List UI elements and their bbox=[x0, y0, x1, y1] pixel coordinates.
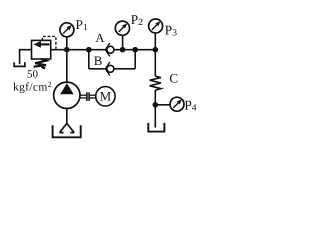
tank main reservoir bbox=[53, 125, 81, 137]
wire pump suction bbox=[66, 109, 68, 124]
wire P2 gauge stem bbox=[122, 35, 124, 49]
svg-text:kgf/cm2: kgf/cm2 bbox=[13, 80, 52, 94]
shaft coupling bbox=[80, 92, 96, 101]
motor M bbox=[96, 87, 115, 106]
relief valve body bbox=[32, 40, 51, 59]
pump P bbox=[54, 82, 80, 108]
gauge P4 bbox=[170, 97, 184, 111]
node junction P3 / C branch bbox=[153, 47, 159, 53]
svg-text:B: B bbox=[94, 53, 103, 68]
tank C drain bbox=[148, 123, 164, 132]
wire main line from relief valve to check valve A bbox=[51, 49, 107, 51]
wire C branch lower vertical bbox=[154, 90, 156, 127]
svg-text:C: C bbox=[169, 70, 178, 85]
gauge P1 bbox=[60, 23, 74, 37]
suction strainer triangle bbox=[60, 123, 75, 132]
svg-text:M: M bbox=[100, 88, 112, 103]
wire branch B up segment bbox=[134, 50, 136, 69]
node junction P2 bbox=[120, 47, 126, 53]
wire branch B down segment bbox=[88, 50, 90, 69]
gauge P3 bbox=[149, 19, 163, 33]
tank relief drain bbox=[14, 62, 25, 66]
gauge P2 bbox=[115, 21, 129, 35]
svg-text:A: A bbox=[95, 31, 104, 45]
node junction branch B split bbox=[86, 47, 92, 53]
wire branch B right horizontal bbox=[114, 68, 135, 70]
wire relief valve to tank bbox=[20, 50, 32, 64]
restrictor C zigzag bbox=[150, 76, 161, 90]
wire main line from check valve A to node P3 bbox=[114, 49, 155, 51]
check valve B bbox=[105, 62, 114, 75]
wire P4 gauge stem bbox=[155, 104, 170, 106]
node junction pump/relief/P1 bbox=[64, 47, 70, 53]
relief valve spring bbox=[34, 59, 47, 69]
wire P1 gauge stem bbox=[66, 37, 68, 50]
node junction P4 bbox=[153, 102, 159, 108]
wire P3 gauge stem bbox=[154, 33, 156, 50]
wire branch B left horizontal bbox=[89, 68, 107, 70]
wire pump outlet vertical bbox=[66, 50, 68, 82]
check valve A bbox=[105, 43, 114, 56]
node junction branch B rejoin bbox=[132, 47, 138, 53]
relief valve pilot dashed line bbox=[42, 36, 56, 48]
svg-text:50: 50 bbox=[27, 69, 39, 81]
wire C branch upper vertical bbox=[154, 50, 156, 76]
relief valve arrow bbox=[34, 41, 50, 48]
